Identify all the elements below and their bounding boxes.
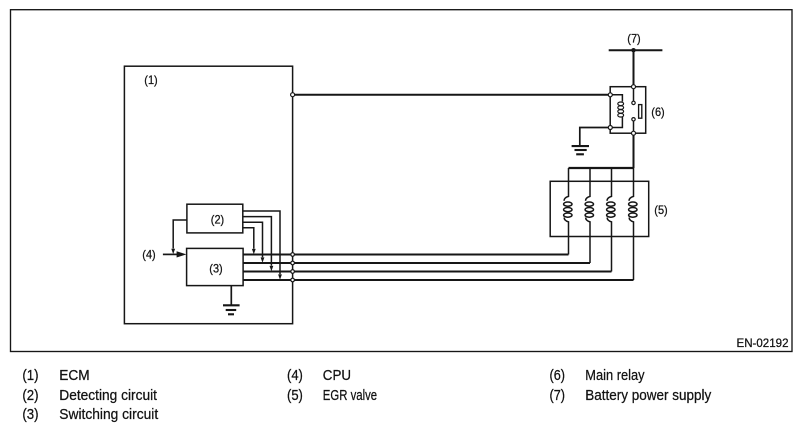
ground: ECM switching circuit ground symbol bbox=[223, 305, 240, 314]
wire: detecting tap to net 1 bbox=[243, 228, 254, 249]
pin: ECM connector terminal net 4 bbox=[291, 278, 295, 282]
svg-text:Switching circuit: Switching circuit bbox=[59, 406, 159, 423]
wire: battery power supply bar (7) bbox=[609, 49, 663, 51]
inductor L3 (EGR valve coil 3) bbox=[607, 168, 615, 272]
wire: EGR coil 4 to ECM (net 4) bbox=[243, 279, 633, 281]
inductor L2 (EGR valve coil 2) bbox=[585, 168, 593, 263]
svg-text:Battery power supply: Battery power supply bbox=[585, 387, 711, 404]
box (2) detecting circuit bbox=[187, 204, 243, 233]
relay K1 contact bar bbox=[639, 105, 642, 119]
pin: ECM connector terminal net 1 bbox=[291, 253, 295, 257]
svg-text:(7): (7) bbox=[550, 387, 566, 404]
diagram border frame (decorative) bbox=[11, 10, 793, 352]
wire: main relay contact output down to bus bbox=[633, 133, 635, 168]
svg-text:(3): (3) bbox=[22, 406, 38, 423]
relay K1 coil bbox=[610, 95, 623, 128]
wire: CPU (4) input arrow bbox=[163, 253, 178, 255]
svg-text:(4): (4) bbox=[142, 248, 155, 262]
node: battery supply junction dot bbox=[631, 48, 635, 52]
wire: ECM output to main relay coil bbox=[293, 94, 611, 96]
svg-text:(6): (6) bbox=[550, 367, 566, 384]
wire: switching circuit to ground bbox=[230, 286, 232, 305]
wire: detecting tap to net 3 bbox=[243, 217, 272, 266]
svg-text:(1): (1) bbox=[144, 73, 157, 87]
inductor L4 (EGR valve coil 4) bbox=[629, 168, 637, 280]
svg-text:(1): (1) bbox=[22, 367, 38, 384]
inductor L1 (EGR valve coil 1) bbox=[564, 168, 572, 255]
wire: relay coil to ground bbox=[580, 128, 611, 146]
svg-text:(4): (4) bbox=[287, 367, 303, 384]
relay K1 terminal pins bbox=[632, 85, 636, 89]
pin: ECM connector terminal net 3 bbox=[291, 270, 295, 274]
svg-text:Main relay: Main relay bbox=[585, 367, 645, 384]
relay K1 contact leads bbox=[633, 87, 635, 134]
svg-text:(5): (5) bbox=[654, 203, 667, 217]
svg-text:(7): (7) bbox=[627, 32, 640, 46]
pin: ECM connector terminal, relay drive bbox=[291, 93, 295, 97]
svg-text:(2): (2) bbox=[22, 387, 38, 404]
svg-text:(6): (6) bbox=[651, 105, 664, 119]
wire: detecting tap to net 2 bbox=[243, 222, 263, 257]
box (3) switching circuit bbox=[187, 248, 244, 285]
svg-text:EGR valve: EGR valve bbox=[323, 387, 377, 404]
relay K1 inner contact pins bbox=[632, 101, 635, 104]
box (5) EGR valve bbox=[550, 181, 649, 236]
svg-text:(2): (2) bbox=[211, 213, 224, 227]
svg-text:(5): (5) bbox=[287, 387, 303, 404]
svg-text:ECM: ECM bbox=[59, 367, 89, 384]
svg-text:Detecting circuit: Detecting circuit bbox=[59, 387, 157, 404]
ground: main relay ground symbol bbox=[572, 146, 589, 154]
svg-text:EN-02192: EN-02192 bbox=[737, 336, 789, 350]
wire: detecting tap to net 4 bbox=[243, 211, 280, 274]
box (1) ECM bbox=[124, 66, 292, 324]
wire: EGR coil 3 to ECM (net 3) bbox=[243, 271, 611, 273]
wire: detecting circuit to CPU input line bbox=[173, 220, 187, 249]
wire: battery to relay top terminal bbox=[633, 50, 635, 86]
svg-text:(3): (3) bbox=[209, 262, 222, 276]
relay K1 (6) main relay box bbox=[610, 87, 646, 134]
pin: ECM connector terminal net 2 bbox=[291, 261, 295, 265]
legend bbox=[22, 367, 711, 423]
wire: EGR coil 1 to ECM (net 1) bbox=[243, 254, 568, 256]
wire: EGR coil 2 to ECM (net 2) bbox=[243, 262, 590, 264]
wire: supply bus to EGR coil tops bbox=[569, 167, 634, 169]
svg-text:CPU: CPU bbox=[323, 367, 351, 384]
